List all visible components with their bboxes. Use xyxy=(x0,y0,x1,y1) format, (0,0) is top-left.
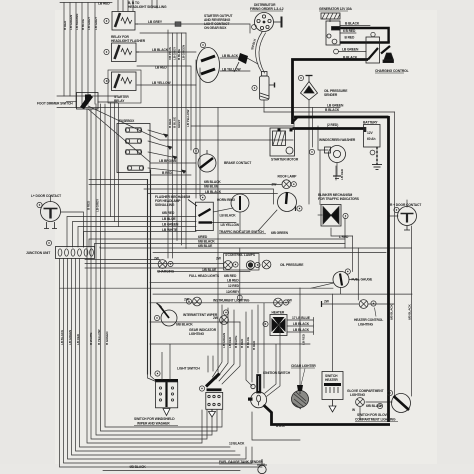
wire bus y294 xyxy=(153,293,412,295)
wire oval yellow out xyxy=(220,70,250,72)
fuse arrows xyxy=(163,134,186,175)
wire black y112 xyxy=(264,111,395,113)
svg-text:FOR TRAFFIC INDICATORS: FOR TRAFFIC INDICATORS xyxy=(318,197,360,201)
wire thick battery to main xyxy=(294,116,389,119)
svg-text:CHARGING: CHARGING xyxy=(157,270,175,274)
wire top stub 5 xyxy=(151,0,153,8)
svg-text:LB GREY: LB GREY xyxy=(94,16,98,30)
svg-text:6/B BLACK: 6/B BLACK xyxy=(204,180,221,184)
svg-text:LB GREEN: LB GREEN xyxy=(162,222,179,226)
svg-text:B GREEN: B GREEN xyxy=(105,331,109,345)
starter contact terminal circle xyxy=(200,42,205,47)
control lamp 1 terminal xyxy=(168,261,173,266)
wire ignition drops xyxy=(252,412,300,440)
wire tank sender line xyxy=(103,470,240,472)
svg-text:1/B BLUE: 1/B BLUE xyxy=(202,268,217,272)
glove compartment switch xyxy=(392,394,411,413)
flasher mechanism for headlamp signalling xyxy=(188,200,213,231)
svg-text:6 B RED: 6 B RED xyxy=(343,29,356,33)
heater control lamp xyxy=(359,300,368,309)
svg-text:L RED: L RED xyxy=(339,235,349,239)
wire washer ground lead xyxy=(336,163,338,175)
wire left cross y96 xyxy=(57,95,118,97)
wire relay grey out xyxy=(137,24,250,33)
svg-text:LB BLACK: LB BLACK xyxy=(60,329,64,345)
wire centre dark vertical 1 xyxy=(147,180,149,375)
wire roofbus y189 xyxy=(144,189,274,204)
svg-text:SENDER: SENDER xyxy=(324,93,338,97)
svg-text:6/B RED: 6/B RED xyxy=(162,211,175,215)
svg-text:B RED: B RED xyxy=(168,118,172,128)
svg-text:LB RED: LB RED xyxy=(302,333,306,345)
heater fan terminal xyxy=(263,321,268,326)
wire fuse out 1 xyxy=(148,130,168,136)
wire fuse out 4 xyxy=(148,168,186,172)
svg-text:HEATER: HEATER xyxy=(325,378,338,382)
wire top stub 2 xyxy=(122,0,124,11)
right door contact xyxy=(398,207,417,231)
control lamp 1 charging xyxy=(158,260,167,269)
svg-text:BATTERY: BATTERY xyxy=(363,121,378,125)
wire centre dark vertical 2 xyxy=(150,170,152,374)
junction unit xyxy=(56,247,95,259)
wire centre drop 5 xyxy=(246,312,252,386)
wire charging green xyxy=(339,51,367,53)
svg-text:ROOF LAMP: ROOF LAMP xyxy=(278,175,298,179)
intermittent wiper terminal xyxy=(154,315,159,320)
wire door contact R leads xyxy=(388,200,407,216)
wire bundle A-4 xyxy=(81,3,83,108)
intermittent wiper unit xyxy=(157,303,178,326)
svg-text:CIGAR LIGHTER: CIGAR LIGHTER xyxy=(291,364,316,368)
wire bus y282 xyxy=(150,281,333,283)
wire coil low out xyxy=(263,100,265,112)
wire junction output 6 xyxy=(80,259,231,448)
heater control leader xyxy=(375,308,377,317)
heater control lamp terminal xyxy=(371,301,376,306)
wire heater ctrl lamp lead xyxy=(322,303,395,305)
wire ignition up leads xyxy=(265,322,281,397)
svg-text:6/B BLACK: 6/B BLACK xyxy=(408,304,412,320)
svg-text:LB GREY: LB GREY xyxy=(87,16,91,30)
svg-text:LIGHTING: LIGHTING xyxy=(189,332,204,336)
wire relay drop 2 xyxy=(114,103,116,222)
svg-text:BRAKE CONTACT: BRAKE CONTACT xyxy=(224,161,251,165)
svg-text:LB BLACK: LB BLACK xyxy=(152,48,169,52)
svg-text:(2 RED): (2 RED) xyxy=(327,123,338,127)
ignition coil terminal circle xyxy=(252,85,257,90)
svg-text:60 Ah: 60 Ah xyxy=(367,137,375,141)
brake contact xyxy=(198,150,216,172)
wire junction out right 3 xyxy=(85,267,224,269)
wire junction out right 1 xyxy=(85,259,160,261)
roof light lamp xyxy=(282,180,291,189)
battery xyxy=(364,125,381,166)
wire bundle A-2 xyxy=(69,3,71,97)
wiper/washer switch xyxy=(155,381,178,416)
svg-text:GREY: GREY xyxy=(177,119,181,128)
svg-text:B RED: B RED xyxy=(63,20,67,30)
svg-text:6/RED: 6/RED xyxy=(198,235,208,239)
HT lead flag xyxy=(234,53,248,72)
wire junction output 3 xyxy=(68,259,247,460)
wire roofbus y179 xyxy=(89,179,148,181)
wire thick ignition bottom run xyxy=(264,405,391,425)
flasher terminal circle xyxy=(200,195,205,200)
relay K1 terminal circle xyxy=(104,18,109,23)
wire gen tap 2 xyxy=(340,32,356,34)
wire relay out y85 xyxy=(137,84,196,86)
wire bundle B-5 xyxy=(87,109,202,443)
svg-text:STARTER MOTOR: STARTER MOTOR xyxy=(271,158,299,162)
wire relay drop 3 xyxy=(118,103,120,227)
svg-text:B RED: B RED xyxy=(345,36,355,40)
wire top stub 4 xyxy=(132,0,134,11)
wire right vertical x394 xyxy=(394,112,396,395)
charging green terminal xyxy=(334,49,339,54)
svg-text:LB YELLOW: LB YELLOW xyxy=(221,223,240,227)
charging box terminal xyxy=(371,32,375,36)
wire top stub 1 xyxy=(117,0,119,11)
wire switch heater feed xyxy=(332,294,334,371)
glove switch terminal xyxy=(387,390,392,395)
wire x218 long xyxy=(217,108,219,345)
wire junction feed 1 xyxy=(67,217,196,248)
wire top stub 6 xyxy=(156,0,158,8)
svg-text:4/B BLACK: 4/B BLACK xyxy=(129,465,146,469)
wire y344 xyxy=(150,343,310,345)
svg-text:VB PLUS: VB PLUS xyxy=(168,47,172,60)
svg-text:6/B BLUE: 6/B BLUE xyxy=(198,244,213,248)
svg-text:LIGHTING: LIGHTING xyxy=(358,323,373,327)
svg-text:CHARGING CONTROL: CHARGING CONTROL xyxy=(375,69,409,73)
svg-text:12/GREY: 12/GREY xyxy=(226,290,240,294)
left door contact xyxy=(41,202,61,229)
generator xyxy=(321,13,340,45)
svg-text:HORN RING: HORN RING xyxy=(217,198,236,202)
wire bundle B-3 xyxy=(96,104,212,435)
relay K2 terminal circle xyxy=(104,49,109,54)
svg-text:13 BLACK: 13 BLACK xyxy=(229,442,245,446)
svg-text:L+ DOOR CONTACT: L+ DOOR CONTACT xyxy=(31,194,61,198)
wire heater lead2 xyxy=(287,324,314,329)
wire cigar feed xyxy=(299,288,301,390)
wire heater lead3 xyxy=(287,330,314,335)
gear lamp terminal xyxy=(223,310,228,315)
svg-text:LIGHT SWITCH: LIGHT SWITCH xyxy=(177,367,200,371)
svg-text:LB RED: LB RED xyxy=(340,168,344,180)
svg-text:LB GREY: LB GREY xyxy=(148,20,163,24)
svg-text:LB YELLOW: LB YELLOW xyxy=(152,81,171,85)
svg-text:6/B BLUE: 6/B BLUE xyxy=(204,185,219,189)
svg-text:GENERATOR 12V 30A: GENERATOR 12V 30A xyxy=(319,7,353,11)
rotated labels centre drops xyxy=(222,332,256,350)
wire control lamp bus xyxy=(153,252,386,254)
wire centre drop 7 xyxy=(257,305,259,373)
svg-text:B WHITE: B WHITE xyxy=(234,336,238,348)
svg-text:LB RED: LB RED xyxy=(98,2,110,6)
wire dimmer diag 2 xyxy=(88,109,150,162)
wire mid bundle C-5 xyxy=(185,33,187,249)
wire mid bundle C-4 xyxy=(181,33,183,245)
control lamps outline box xyxy=(224,254,260,271)
fuel gauge xyxy=(333,272,349,288)
svg-text:HEATER CONTROL: HEATER CONTROL xyxy=(354,318,383,322)
charging control relay box xyxy=(366,37,394,63)
svg-text:6/B BLACK: 6/B BLACK xyxy=(176,323,193,327)
oil sender terminal circle xyxy=(298,75,303,80)
svg-text:6/B BLACK: 6/B BLACK xyxy=(390,304,394,320)
wire dimmer link xyxy=(98,101,118,103)
wire oil sender tail xyxy=(308,100,310,204)
svg-text:LB BLACK: LB BLACK xyxy=(293,328,310,332)
junction unit terminal xyxy=(46,240,51,245)
svg-text:FULL HEAD LIGHTS: FULL HEAD LIGHTS xyxy=(189,274,220,278)
wire junction output 4 xyxy=(72,259,241,456)
svg-text:6/B BLACK: 6/B BLACK xyxy=(366,404,383,408)
svg-text:LB RED: LB RED xyxy=(227,278,239,282)
relay K2 headlight flasher xyxy=(112,43,140,62)
svg-text:ON GEAR BOX: ON GEAR BOX xyxy=(204,26,227,30)
light switch terminal xyxy=(199,386,204,391)
wire mid vertical x196 xyxy=(195,60,197,198)
wire junction output 2 xyxy=(64,259,253,464)
heater fan xyxy=(270,315,287,336)
svg-text:LB RED: LB RED xyxy=(76,333,80,345)
svg-text:LB GREEN: LB GREEN xyxy=(69,14,73,30)
svg-text:WINDSCREEN WASHER: WINDSCREEN WASHER xyxy=(319,138,356,142)
instrument lighting lamp 1 terminal xyxy=(186,299,191,304)
wire thick starter cable corner xyxy=(293,60,369,125)
wire coil HT lead xyxy=(256,32,262,72)
wire relay drop 1 xyxy=(110,103,112,217)
svg-text:SWITCH FOR GLOVE: SWITCH FOR GLOVE xyxy=(357,413,390,417)
svg-text:LB BLUE: LB BLUE xyxy=(162,217,176,221)
svg-text:IGNITION SWITCH: IGNITION SWITCH xyxy=(263,371,291,375)
relay K1 headlight signalling xyxy=(112,12,138,31)
svg-text:SIGNALLING: SIGNALLING xyxy=(155,203,175,207)
svg-text:B YELLOW: B YELLOW xyxy=(97,329,101,345)
wire centre drop 3 xyxy=(219,310,234,381)
wire centre drop 8 xyxy=(263,303,265,388)
instrument lighting lamp 2 xyxy=(274,298,283,307)
svg-text:FUEL GAUGE TANK SENDER: FUEL GAUGE TANK SENDER xyxy=(219,460,264,464)
oil pressure sender xyxy=(301,76,318,101)
wire battery ground xyxy=(376,147,378,164)
wire mid vertical x200 xyxy=(199,68,201,196)
svg-text:6/B GREEN: 6/B GREEN xyxy=(271,231,289,235)
connector on grey wire xyxy=(175,22,181,27)
svg-text:SWITCH FOR WINDSHIELD: SWITCH FOR WINDSHIELD xyxy=(134,417,175,421)
wire door contact link xyxy=(61,212,84,247)
starter motor xyxy=(270,128,295,156)
svg-text:LB GREEN: LB GREEN xyxy=(327,104,344,108)
wire starter relay to oval xyxy=(137,51,196,53)
wire lightsw drops xyxy=(208,344,218,372)
wire wiper feeds xyxy=(148,344,171,382)
svg-text:B BLUE: B BLUE xyxy=(173,117,177,128)
brake contact terminal xyxy=(193,148,198,153)
wire instrument light bus xyxy=(150,302,290,304)
svg-text:RELAY: RELAY xyxy=(114,99,125,103)
wire lamp feed vertical xyxy=(239,248,241,303)
distributor side terminal xyxy=(252,25,257,30)
wire starter motor lead xyxy=(293,120,295,128)
svg-text:R + DOOR CONTACT: R + DOOR CONTACT xyxy=(390,203,421,207)
windscreen washer pump xyxy=(325,146,346,179)
roof lamp terminal xyxy=(291,182,296,187)
wire thick battery feed xyxy=(293,127,365,130)
wire fuse out 2 xyxy=(148,141,172,148)
wire heater control feed xyxy=(344,218,346,248)
wire blinker left lead xyxy=(318,214,322,216)
control lamp 2 terminal xyxy=(233,262,238,267)
wire mid bundle C-2 xyxy=(172,33,174,258)
svg-text:LB BROWN: LB BROWN xyxy=(159,159,177,163)
rotated labels right verticals xyxy=(302,168,412,345)
traffic switch bottom tick xyxy=(295,206,297,211)
svg-text:B RED: B RED xyxy=(240,338,244,348)
svg-text:LB BROWN: LB BROWN xyxy=(75,13,79,30)
wire relay out y66 xyxy=(137,66,191,150)
wire gear light bus xyxy=(150,321,240,323)
wire centre drop 6 xyxy=(251,310,253,382)
svg-text:B RED: B RED xyxy=(87,200,91,210)
wire fuel gauge feed drop xyxy=(352,236,354,272)
svg-text:LB GREEN: LB GREEN xyxy=(342,48,359,52)
control lamp 2 xyxy=(224,261,233,270)
wire top stub 3 xyxy=(127,0,129,11)
wire mid bundle C-1 xyxy=(167,30,169,258)
svg-text:COMPARTMENT LIGHTING: COMPARTMENT LIGHTING xyxy=(355,418,396,422)
fuel gauge terminal xyxy=(345,269,350,274)
svg-text:6/B BLACK: 6/B BLACK xyxy=(198,240,215,244)
svg-text:LB GREY: LB GREY xyxy=(173,46,177,60)
wire thick generator B to charging control xyxy=(333,28,389,43)
svg-text:B BLUE: B BLUE xyxy=(177,49,181,60)
svg-text:B BLUE: B BLUE xyxy=(246,337,250,348)
svg-text:B BLACK: B BLACK xyxy=(345,22,360,26)
wire washer drop xyxy=(312,108,314,148)
wire red y175 xyxy=(151,174,192,176)
instrument lighting lamp 2 terminal xyxy=(283,300,288,305)
wire thick charging control internal xyxy=(340,41,390,43)
heater control 2W tick xyxy=(321,301,323,307)
gear indicator lamp xyxy=(220,316,229,325)
svg-text:HEADLIGHT SIGNALLING: HEADLIGHT SIGNALLING xyxy=(128,5,167,9)
svg-text:FUSEBOX: FUSEBOX xyxy=(119,119,135,123)
wire junction out right 2 xyxy=(85,263,224,265)
wire top feed bus xyxy=(60,2,112,4)
svg-text:12 RED: 12 RED xyxy=(228,284,240,288)
svg-text:B B B: B B B xyxy=(276,424,285,428)
wire blinker bottom lead xyxy=(331,228,353,236)
fuel tank sender unit xyxy=(257,459,267,474)
svg-text:HEATER: HEATER xyxy=(272,311,285,315)
svg-text:LB RED: LB RED xyxy=(155,66,167,70)
svg-text:LB BLACK: LB BLACK xyxy=(222,54,239,58)
svg-text:B BLUE: B BLUE xyxy=(81,19,85,30)
wire brown y163 xyxy=(151,162,197,164)
wire thick main down cable xyxy=(387,116,390,422)
svg-text:INSTRUMENT LIGHTING: INSTRUMENT LIGHTING xyxy=(213,299,250,303)
wire heater lead1 xyxy=(287,318,314,323)
wire junction output 5 xyxy=(76,259,236,452)
wire main bus y248 xyxy=(100,247,412,248)
wire bundle A-6 xyxy=(94,3,96,105)
wire roofbus y193 xyxy=(148,193,278,195)
wire distributor lead 2 xyxy=(259,33,266,73)
svg-text:FUEL GAUGE: FUEL GAUGE xyxy=(352,278,373,282)
svg-text:LB BLACK: LB BLACK xyxy=(293,322,310,326)
svg-text:B BLACK: B BLACK xyxy=(343,56,358,60)
svg-text:HEADLIGHT FLASHER: HEADLIGHT FLASHER xyxy=(111,39,146,43)
wire mid bundle C-3 xyxy=(176,33,178,241)
wire junction output 1 xyxy=(60,259,263,468)
svg-text:LB GREEN: LB GREEN xyxy=(222,332,226,348)
fusebox xyxy=(117,124,150,173)
wire main bus y239 xyxy=(89,239,345,247)
wire washer feed xyxy=(318,126,328,150)
svg-text:B RED: B RED xyxy=(252,340,256,350)
svg-text:LB GREY: LB GREY xyxy=(96,198,100,212)
rotated labels left bottom xyxy=(60,329,109,345)
wire bundle B-2 xyxy=(101,104,218,431)
instrument lighting lamp 1 xyxy=(193,297,202,306)
wire centre drop 4 xyxy=(222,322,240,384)
wire bundle B-1 xyxy=(105,104,222,427)
rotated labels bundle B mid xyxy=(87,198,100,212)
wire main bus y243 xyxy=(95,244,346,248)
heater switch xyxy=(322,372,343,413)
traffic switch terminal xyxy=(297,206,302,211)
svg-text:LB GREEN: LB GREEN xyxy=(182,44,186,60)
svg-text:LB YELLOW: LB YELLOW xyxy=(222,68,241,72)
wire thick charging contact arm xyxy=(368,46,390,60)
svg-text:LIGHTING: LIGHTING xyxy=(350,393,365,397)
wire fuelgauge leads xyxy=(311,280,359,295)
svg-text:B BLACK: B BLACK xyxy=(325,108,340,112)
wire horn drop xyxy=(239,212,241,231)
svg-text:4 CONTROL LAMPS: 4 CONTROL LAMPS xyxy=(225,253,256,257)
glove lamp terminal xyxy=(377,403,382,408)
wire bundle A-3 xyxy=(75,3,77,108)
svg-text:12V: 12V xyxy=(367,131,373,135)
wiper switch terminal xyxy=(155,371,160,376)
wire glove lamp lead xyxy=(366,401,392,403)
svg-text:LB RED: LB RED xyxy=(228,336,232,348)
wire junction feed 4 xyxy=(84,232,197,248)
right door contact terminal xyxy=(394,207,399,212)
wire bus y271 xyxy=(158,271,250,273)
svg-text:LB GREEN: LB GREEN xyxy=(68,329,72,345)
wire door contact L leads xyxy=(50,196,52,202)
wire glove drop xyxy=(359,407,361,420)
cigar lighter xyxy=(292,385,309,409)
wire junction feed 3 xyxy=(78,227,196,248)
wire roofbus y184 xyxy=(89,183,282,185)
distributor xyxy=(255,13,282,32)
ignition coil xyxy=(260,72,275,101)
wire gen tap 1 xyxy=(340,25,370,27)
svg-text:LB YELLOW: LB YELLOW xyxy=(186,110,190,127)
starter/reversing contact oval xyxy=(197,48,220,83)
svg-text:LB BLACK: LB BLACK xyxy=(220,214,237,218)
horn ring xyxy=(231,194,249,212)
wire y140 xyxy=(160,139,293,141)
wire y126 thin xyxy=(191,125,293,127)
ignition switch xyxy=(248,375,267,408)
